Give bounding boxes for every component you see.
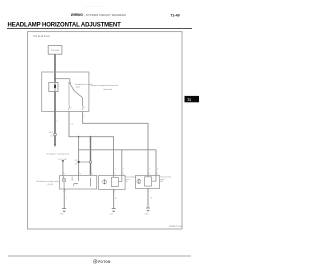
svg-text:G03: G03 (109, 214, 113, 216)
svg-text:7: 7 (84, 116, 85, 118)
svg-text:F20 10A: F20 10A (51, 49, 59, 52)
svg-text:(2): (2) (50, 136, 53, 138)
svg-text:5: 5 (84, 107, 85, 109)
svg-text:C20-3 (J/B): C20-3 (J/B) (58, 159, 68, 161)
svg-text:M06: M06 (49, 132, 53, 134)
svg-text:Hot at all times: Hot at all times (33, 35, 50, 38)
svg-text:G04: G04 (145, 214, 149, 216)
svg-text:2: 2 (149, 169, 150, 171)
svg-text:2: 2 (70, 107, 71, 109)
svg-text:2: 2 (115, 169, 116, 171)
svg-text:3: 3 (80, 173, 81, 175)
svg-text:(LHD): (LHD) (48, 184, 54, 186)
svg-text:31: 31 (150, 198, 152, 200)
svg-text:1: 1 (150, 190, 151, 192)
svg-text:6: 6 (123, 173, 124, 175)
svg-text:FOTON: FOTON (98, 260, 111, 264)
svg-text:(fuse box): (fuse box) (103, 89, 112, 91)
svg-text:To daytime running lamp: To daytime running lamp (46, 153, 69, 156)
svg-text:1: 1 (66, 191, 67, 193)
svg-text:Headlamp leveling switch: Headlamp leveling switch (37, 180, 60, 183)
svg-text:1: 1 (66, 198, 67, 200)
svg-text:G06: G06 (60, 214, 64, 216)
svg-text:HEADLAMP HORIZONTAL ADJUSTMENT: HEADLAMP HORIZONTAL ADJUSTMENT (8, 23, 122, 29)
svg-text:EKBW710491: EKBW710491 (169, 226, 183, 228)
svg-text:71: 71 (187, 98, 191, 102)
svg-text:5: 5 (64, 173, 65, 175)
svg-text:2: 2 (149, 173, 150, 175)
svg-text:Engine compartment fuse box: Engine compartment fuse box (91, 84, 118, 87)
svg-text:6: 6 (92, 173, 93, 175)
svg-text:1: 1 (115, 191, 116, 193)
svg-text:C20: C20 (74, 160, 77, 162)
svg-text:31: 31 (115, 198, 117, 200)
svg-text:2: 2 (115, 173, 116, 175)
svg-text:---- -------- -----: ---- -------- ----- (84, 5, 104, 9)
svg-text:WIRING - SYSTEM CIRCUIT DIAGRA: WIRING - SYSTEM CIRCUIT DIAGRAM (71, 13, 127, 17)
svg-text:71-49: 71-49 (170, 14, 179, 18)
svg-text:6: 6 (157, 173, 158, 175)
svg-text:6: 6 (123, 169, 124, 171)
svg-text:6: 6 (157, 169, 158, 171)
